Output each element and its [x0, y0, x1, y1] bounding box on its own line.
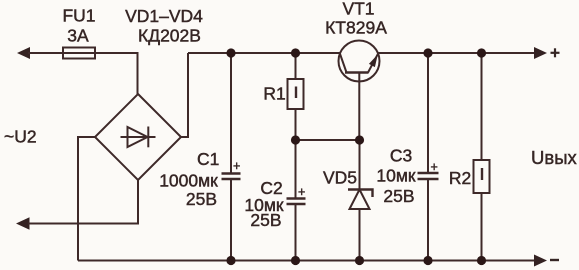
transistor VT1 base lead down [358, 73, 360, 141]
svg-text:25В: 25В [250, 210, 281, 230]
resistor R2 top lead [481, 53, 483, 160]
node: C1 / top bus [226, 48, 235, 57]
zener diode VD5 bottom lead [359, 209, 361, 261]
capacitor C3 bottom lead [427, 179, 429, 261]
zener diode VD5 top lead [359, 140, 361, 190]
transistor VT1 collector diagonal [340, 53, 347, 73]
bridge rectifier VD1-VD4 diamond [95, 94, 181, 180]
svg-text:+: + [233, 159, 240, 173]
svg-text:1000мк: 1000мк [159, 171, 218, 191]
node: R1-C2 junction [291, 135, 300, 144]
svg-text:VT1: VT1 [342, 0, 374, 19]
resistor R2 inner mark [481, 168, 483, 180]
capacitor C2 top lead [295, 140, 297, 199]
output terminal arrow (top, +) [534, 47, 547, 59]
input terminal arrow (bottom AC lead) [16, 217, 30, 229]
resistor R1 bottom lead [295, 109, 297, 140]
wire: base node jumper R1/C2 to VD5/base [296, 139, 360, 141]
transistor VT1 base bar [345, 71, 369, 74]
label + output [551, 48, 560, 57]
capacitor C2 bottom lead [295, 204, 297, 261]
capacitor C1 plates [222, 174, 241, 180]
label - output [550, 259, 559, 261]
node: VD5 / bottom rail [355, 256, 364, 265]
bottom minus rail [78, 260, 540, 262]
resistor R2 bottom lead [481, 193, 483, 261]
wire: bottom AC lead to bridge bottom vertex [28, 180, 138, 224]
fuse FU1 [63, 48, 95, 59]
input terminal arrow (top AC lead) [17, 47, 30, 59]
capacitor C1 bottom lead [230, 179, 232, 261]
zener diode VD5 triangle [350, 190, 370, 210]
svg-text:R2: R2 [449, 168, 471, 188]
node: C3 / top bus [423, 48, 432, 57]
resistor R1 top lead [295, 53, 297, 79]
svg-text:10мк: 10мк [376, 166, 415, 186]
wire: top-left AC lead through fuse to bridge top [28, 53, 138, 94]
svg-text:25В: 25В [383, 186, 414, 206]
svg-text:VD1–VD4: VD1–VD4 [125, 6, 203, 26]
svg-text:КД202В: КД202В [138, 26, 201, 46]
svg-text:R1: R1 [263, 84, 285, 104]
node: base-VD5 junction [355, 135, 364, 144]
svg-text:КТ829А: КТ829А [325, 18, 387, 38]
capacitor C1 top lead [230, 53, 232, 173]
capacitor C2 plates [287, 199, 306, 205]
node: R1 / top bus [291, 48, 300, 57]
svg-text:+: + [431, 160, 438, 174]
transistor VT1 circle [339, 41, 380, 82]
node: R2 / bottom rail [477, 256, 486, 265]
transistor VT1 emitter diagonal with arrow [368, 53, 378, 72]
zener diode VD5 cathode bar with tail [348, 190, 373, 198]
resistor R1 inner mark [295, 87, 297, 99]
wire: bridge right vertex (plus) up to top bus [181, 53, 188, 137]
diode symbol inside bridge [121, 127, 156, 148]
svg-text:+: + [298, 185, 305, 199]
resistor R1 body [288, 79, 304, 109]
svg-text:VD5: VD5 [323, 168, 357, 188]
capacitor C3 plates [418, 173, 439, 179]
svg-text:25В: 25В [186, 189, 217, 209]
resistor R2 body [474, 160, 490, 193]
node: C3 / bottom rail [423, 256, 432, 265]
output terminal arrow (bottom, -) [534, 255, 547, 267]
svg-text:FU1: FU1 [62, 6, 95, 26]
node: C2 / bottom rail [291, 256, 300, 265]
svg-text:C1: C1 [197, 149, 219, 169]
wire: bridge left vertex (minus) down to bottom rail [78, 137, 95, 261]
svg-text:3А: 3А [67, 26, 89, 46]
svg-text:Uвых: Uвых [531, 147, 577, 168]
node: C1 / bottom rail [226, 256, 235, 265]
capacitor C3 top lead [427, 53, 429, 173]
svg-text:~U2: ~U2 [4, 127, 37, 147]
wire: top plus bus from bridge to transistor collector [188, 52, 340, 54]
svg-text:C3: C3 [390, 146, 412, 166]
wire: top plus bus from emitter to output [378, 52, 540, 54]
node: R2 / top bus [477, 48, 486, 57]
